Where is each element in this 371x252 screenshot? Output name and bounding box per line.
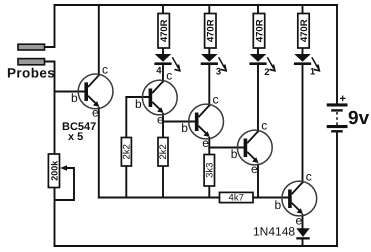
wire 470R stub col2 [208,5,210,14]
svg-text:3: 3 [216,67,221,78]
LED 3 [201,54,226,78]
wire 470R stub col4 [302,5,304,14]
svg-text:Probes: Probes [7,66,55,81]
battery 9v [327,93,370,133]
wire LED1 anode lead [302,48,304,54]
wire pot bottom lead [54,188,56,247]
svg-text:1: 1 [310,67,316,78]
svg-text:+: + [340,93,346,105]
wire Q5 emitter to diode [302,215,304,228]
svg-text:c: c [306,170,312,184]
wire battery bottom [336,133,338,247]
LED 1 [294,54,319,78]
transistor Q3 [181,93,223,151]
probe bar bottom [18,59,45,65]
resistor R1 470R [158,14,170,49]
wire 3k3 bottom lead [208,186,210,198]
svg-text:c: c [261,119,267,133]
svg-text:e: e [202,136,209,150]
svg-text:e: e [296,214,303,228]
wire Q4 collector to LED2 [257,65,259,132]
LED 2 [249,54,274,78]
resistor 2k2 a [121,138,132,167]
wire Q4 emitter to bus [257,165,259,198]
resistor R2 470R [205,14,217,49]
svg-text:e: e [92,106,99,120]
wire Q1 emitter down [98,108,100,198]
svg-text:4: 4 [156,66,162,77]
wire 4k7 to Q5 base [253,197,288,199]
wire Q5 collector to LED1 [302,65,304,183]
svg-text:c: c [213,93,219,107]
svg-text:2k2: 2k2 [122,144,133,159]
wire Q1 base [55,91,85,93]
LED 4 [154,54,179,77]
resistor 2k2 b [158,138,169,167]
svg-text:470R: 470R [206,19,217,42]
resistor R4 470R [298,14,310,49]
wire 470R stub col1 [162,5,164,14]
diode 1N4148 [253,225,310,240]
potentiometer 200k [48,154,67,188]
svg-text:2k2: 2k2 [158,144,169,159]
transistor Q5 [275,170,317,228]
wire 2k2b bottom lead [162,166,164,198]
svg-text:b: b [231,147,238,161]
wire Q3 emitter to Q4 base [209,138,243,148]
svg-text:b: b [275,198,282,212]
svg-text:470R: 470R [299,19,310,42]
wire bottom ground rail [55,245,338,247]
wire battery top [336,5,338,104]
svg-text:200k: 200k [49,160,59,181]
svg-text:3k3: 3k3 [205,163,216,178]
svg-text:e: e [157,112,164,126]
wire 2k2b top lead [162,122,164,138]
svg-text:e: e [251,162,258,176]
resistor R3 470R [253,14,265,49]
wire Q1 collector to rail [98,5,100,75]
wire probe1 to top rail [45,5,55,47]
wire diode to ground rail [302,239,304,246]
svg-text:b: b [135,97,142,111]
wire emitter bus y197 [99,197,220,199]
wire Q3 collector to LED3 [208,65,210,106]
transistor Q4 [231,119,272,177]
resistor 4k7 [220,192,254,203]
wire LED2 anode lead [257,48,259,54]
wire LED4 anode lead [162,48,164,54]
svg-text:9v: 9v [348,108,370,129]
svg-text:470R: 470R [254,19,265,42]
svg-text:b: b [181,121,188,135]
resistor 3k3 [204,155,215,187]
svg-text:x 5: x 5 [68,131,83,143]
wire 470R stub col3 [257,5,259,14]
wire Q2 collector to LED4 [162,65,164,82]
wire 2k2a bottom lead [125,166,127,198]
svg-text:2: 2 [264,67,269,78]
wire probe2 to base/pot vertical [45,62,55,155]
svg-text:470R: 470R [159,19,170,42]
svg-text:4k7: 4k7 [229,193,244,204]
wire Q2 emitter to Q3 base [163,114,195,122]
transistor Q2 [135,69,177,127]
svg-text:c: c [102,63,108,77]
svg-text:c: c [166,69,172,83]
wire pot wiper loop [55,168,75,200]
svg-text:b: b [71,91,78,105]
wire LED3 anode lead [208,48,210,54]
transistor Q1 BC547 [71,63,113,120]
wire 2k2a top lead to Q2 base [126,97,148,138]
wire 3k3 top lead [208,148,210,155]
wire top +9v rail [55,4,338,6]
probe bar top [18,44,45,50]
svg-text:1N4148: 1N4148 [253,225,295,239]
